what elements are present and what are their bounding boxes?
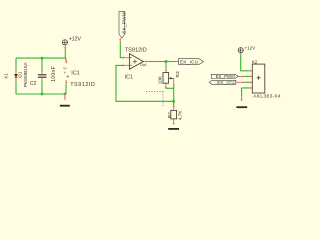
svg-text:IC1: IC1 — [125, 74, 133, 80]
svg-text:P6SMB15A: P6SMB15A — [23, 62, 29, 88]
svg-text:100nF: 100nF — [51, 66, 57, 82]
svg-text:10K: 10K — [158, 75, 164, 84]
svg-text:K2: K2 — [252, 59, 258, 64]
svg-text:R3: R3 — [175, 71, 181, 77]
svg-text:EK_ICU: EK_ICU — [180, 60, 199, 65]
svg-text:4,7K: 4,7K — [177, 110, 183, 121]
svg-text:+: + — [66, 75, 69, 80]
svg-text:D1: D1 — [17, 71, 23, 77]
svg-text:EK_PWM: EK_PWM — [216, 74, 236, 79]
svg-text:+12V: +12V — [69, 37, 82, 43]
svg-text:AKL383-04: AKL383-04 — [253, 94, 281, 100]
svg-text:X1: X1 — [4, 73, 10, 79]
svg-text:Out: Out — [140, 62, 147, 67]
svg-text:EK_PWM: EK_PWM — [121, 12, 126, 34]
svg-text:IC1: IC1 — [71, 70, 80, 76]
svg-text:+12V: +12V — [245, 45, 256, 50]
svg-text:C2: C2 — [30, 81, 37, 87]
svg-text:TS912ID: TS912ID — [70, 82, 95, 88]
svg-text:v-: v- — [64, 71, 67, 75]
svg-text:R2: R2 — [167, 112, 173, 118]
svg-text:EK_ICU: EK_ICU — [217, 80, 235, 85]
svg-text:TS912ID: TS912ID — [125, 47, 147, 53]
